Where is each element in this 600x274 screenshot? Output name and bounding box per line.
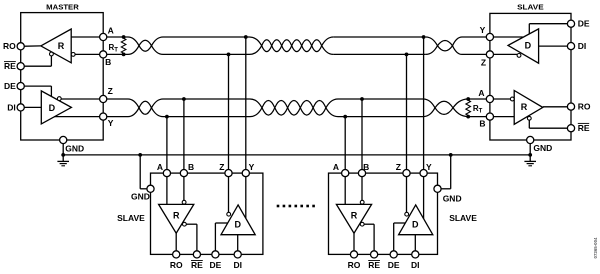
- svg-text:RT: RT: [109, 43, 119, 54]
- svg-text:Z: Z: [108, 86, 113, 96]
- svg-text:R: R: [521, 102, 528, 112]
- svg-text:B: B: [479, 118, 485, 128]
- svg-text:GND: GND: [131, 191, 150, 201]
- svg-text:RE: RE: [578, 123, 590, 133]
- svg-text:D: D: [49, 103, 56, 113]
- svg-text:Z: Z: [481, 57, 486, 67]
- svg-text:DE: DE: [209, 260, 221, 270]
- svg-text:SLAVE: SLAVE: [449, 213, 477, 223]
- svg-text:R: R: [351, 211, 358, 221]
- svg-text:DE: DE: [4, 81, 16, 91]
- svg-text:DE: DE: [388, 260, 400, 270]
- svg-text:D: D: [412, 219, 419, 229]
- svg-text:Y: Y: [480, 25, 486, 35]
- svg-text:SLAVE: SLAVE: [117, 213, 145, 223]
- svg-text:RO: RO: [348, 260, 361, 270]
- svg-text:RO: RO: [3, 41, 16, 51]
- svg-text:RO: RO: [170, 260, 183, 270]
- svg-text:A: A: [478, 88, 484, 98]
- svg-text:GND: GND: [443, 193, 462, 203]
- svg-text:D: D: [234, 219, 241, 229]
- svg-text:GND: GND: [65, 144, 84, 154]
- svg-text:GND: GND: [533, 143, 552, 153]
- svg-text:Z: Z: [219, 162, 224, 172]
- svg-text:DI: DI: [411, 260, 420, 270]
- svg-text:MASTER: MASTER: [46, 2, 79, 11]
- svg-text:DI: DI: [578, 41, 587, 51]
- svg-text:Y: Y: [249, 162, 255, 172]
- svg-text:Y: Y: [108, 118, 114, 128]
- svg-text:DI: DI: [233, 260, 242, 270]
- svg-text:A: A: [108, 25, 114, 35]
- svg-text:DE: DE: [578, 19, 590, 29]
- svg-text:DI: DI: [7, 102, 16, 112]
- svg-text:RE: RE: [368, 260, 380, 270]
- svg-text:A: A: [157, 162, 163, 172]
- svg-text:RO: RO: [578, 102, 591, 112]
- svg-text:07365-004: 07365-004: [593, 237, 598, 259]
- svg-text:B: B: [188, 162, 194, 172]
- svg-text:R: R: [173, 211, 180, 221]
- svg-text:SLAVE: SLAVE: [517, 2, 544, 11]
- svg-text:Z: Z: [396, 162, 401, 172]
- svg-text:RE: RE: [4, 61, 16, 71]
- svg-text:RT: RT: [473, 104, 483, 115]
- svg-text:B: B: [363, 162, 369, 172]
- svg-text:RE: RE: [191, 260, 203, 270]
- svg-text:Y: Y: [426, 162, 432, 172]
- svg-text:A: A: [333, 162, 339, 172]
- svg-text:R: R: [58, 41, 65, 51]
- svg-text:B: B: [105, 57, 111, 67]
- svg-text:D: D: [525, 40, 532, 50]
